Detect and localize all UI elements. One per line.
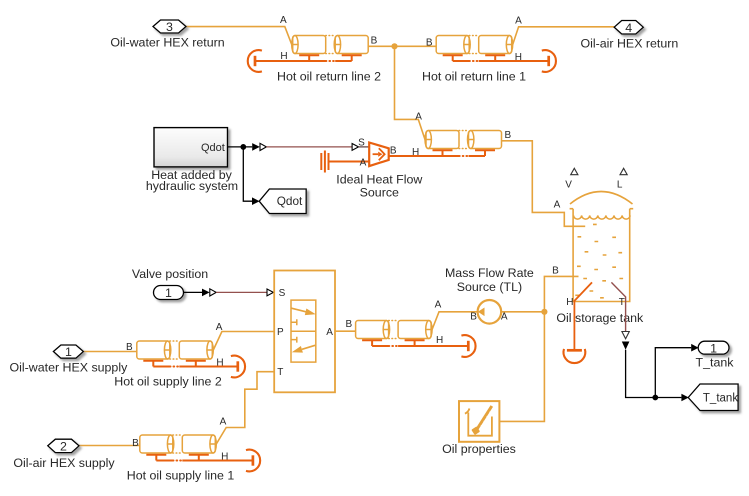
svg-text:2: 2 (60, 440, 67, 454)
svg-text:Hot oil supply line 1: Hot oil supply line 1 (127, 469, 235, 483)
svg-text:A: A (326, 327, 333, 338)
wire port3 to return line 2 port A (186, 27, 292, 45)
svg-text:1: 1 (165, 286, 172, 300)
ground H-port terminator middle pipe (461, 335, 475, 357)
svg-text:H: H (412, 147, 419, 158)
wire valve A to middle pipe B (335, 330, 356, 332)
svg-text:Qdot: Qdot (201, 142, 225, 154)
wire thermal reference to heat source A (329, 161, 370, 163)
svg-text:A: A (501, 311, 508, 322)
ground H-port terminator return line 1 (542, 50, 556, 72)
converter PS to Simulink (622, 342, 630, 350)
node junction at flow source output (541, 309, 547, 315)
svg-text:A: A (280, 15, 287, 26)
subsystem Heat added by hydraulic system (146, 128, 238, 193)
svg-text:Oil storage tank: Oil storage tank (556, 311, 644, 325)
wire PS signal to valve S (216, 291, 267, 293)
wire supply line 1 A to valve T (216, 372, 274, 444)
node junction return lines (391, 43, 397, 49)
svg-text:H: H (216, 357, 223, 368)
ground H-port terminator return line 2 (248, 50, 262, 72)
svg-text:Oil-water HEX supply: Oil-water HEX supply (10, 360, 129, 374)
svg-text:B: B (552, 265, 559, 276)
node T signal junction (652, 395, 658, 401)
svg-text:V: V (565, 179, 572, 190)
svg-text:S: S (279, 288, 286, 299)
goto tag T_tank (688, 384, 738, 411)
wire junction up to tank port B (544, 276, 578, 311)
svg-text:4: 4 (625, 21, 632, 35)
ground H-port terminator supply line 1 (246, 450, 260, 472)
inport 1 Valve position (132, 267, 208, 300)
ground H-port terminator supply line 2 (231, 356, 245, 378)
wire flow source A to junction (501, 311, 544, 313)
svg-text:H: H (436, 335, 443, 346)
wire tank T PS output (611, 282, 625, 331)
svg-text:B: B (426, 38, 433, 49)
svg-text:A: A (220, 416, 227, 427)
wire return line 2 B to return line 1 B (368, 45, 436, 47)
port 3 Oil-water HEX return (110, 20, 224, 50)
svg-text:H: H (566, 297, 573, 308)
svg-text:H: H (280, 51, 287, 62)
pipe Hot oil return line 1 (422, 15, 556, 83)
svg-text:B: B (132, 438, 139, 449)
svg-text:hydraulic system: hydraulic system (146, 179, 238, 193)
svg-text:Oil-air HEX supply: Oil-air HEX supply (13, 456, 115, 470)
pipe Hot oil supply line 2 (114, 322, 245, 389)
wire PS signal to heat source S (266, 146, 352, 148)
svg-text:A: A (435, 300, 442, 311)
svg-text:A: A (515, 15, 522, 26)
outport 1 T_tank (696, 341, 735, 369)
block Oil properties (442, 401, 516, 456)
svg-text:B: B (126, 342, 133, 353)
port 2 Oil-air HEX supply (13, 439, 115, 470)
wire port1 to supply line 2 B (83, 351, 136, 353)
pipe Hot oil supply line 1 (127, 416, 260, 482)
wire tank H to cup terminator (574, 282, 592, 350)
port 1 Oil-water HEX supply (10, 345, 129, 374)
svg-text:A: A (415, 112, 422, 123)
pipe Hot oil return line 2 (248, 15, 381, 83)
svg-text:Mass Flow Rate: Mass Flow Rate (445, 266, 534, 280)
svg-text:Source (TL): Source (TL) (457, 280, 522, 294)
thermal reference for heat source A (321, 151, 328, 173)
node Qdot junction (240, 144, 246, 150)
svg-text:A: A (360, 157, 367, 168)
svg-text:Source: Source (360, 185, 399, 199)
svg-text:Hot oil return line 1: Hot oil return line 1 (422, 70, 526, 84)
svg-text:B: B (504, 130, 511, 141)
svg-text:1: 1 (710, 341, 717, 355)
svg-text:T_tank: T_tank (703, 392, 738, 404)
svg-text:B: B (390, 146, 397, 157)
svg-text:3: 3 (166, 20, 173, 34)
wire junction down to oil properties (499, 312, 544, 422)
wire middle pipe A to flow source B (432, 312, 478, 330)
goto tag Qdot (259, 189, 306, 214)
wire junction to outport (655, 348, 691, 398)
valve block (274, 271, 335, 393)
wire return line 1 A to port4 (513, 27, 615, 45)
svg-text:Hot oil supply line 2: Hot oil supply line 2 (114, 375, 222, 389)
svg-text:T: T (619, 297, 625, 308)
tank Oil storage tank (552, 179, 644, 325)
ground cup terminator tank H (564, 349, 586, 363)
wire tank feed pipe B to tank port A (502, 141, 586, 227)
svg-text:1: 1 (65, 345, 72, 359)
svg-text:H: H (221, 451, 228, 462)
pipe between valve and flow source (unnamed) (345, 300, 475, 357)
pipe tank feed (unnamed) (389, 112, 512, 158)
flow source Mass Flow Rate Source (TL) (445, 266, 534, 324)
svg-text:Oil properties: Oil properties (442, 442, 516, 456)
wire port2 to supply line 1 B (79, 445, 140, 447)
svg-text:B: B (470, 311, 477, 322)
svg-text:Oil-air HEX return: Oil-air HEX return (581, 37, 679, 51)
svg-text:Valve position: Valve position (132, 267, 208, 281)
op heat source U1 Ideal Heat Flow Source (336, 138, 422, 200)
wire Qdot output (228, 146, 253, 148)
svg-text:H: H (515, 52, 522, 63)
port V unconnected triangle (571, 168, 578, 174)
wire valve position to converter (183, 291, 202, 293)
port 4 Oil-air HEX return (581, 21, 679, 51)
svg-text:T: T (277, 367, 283, 378)
svg-text:T_tank: T_tank (696, 355, 735, 369)
wire Qdot branch to goto tag (243, 147, 252, 201)
svg-text:Oil-water HEX return: Oil-water HEX return (110, 36, 224, 50)
svg-text:B: B (345, 319, 352, 330)
wire junction down to tank feed pipe A (395, 46, 426, 139)
svg-text:S: S (358, 138, 365, 149)
wire supply line 2 A to valve P (213, 332, 274, 351)
svg-text:L: L (617, 179, 623, 190)
svg-text:P: P (277, 327, 284, 338)
wire junction to goto tag (655, 397, 681, 399)
wire T signal to junction (626, 350, 656, 398)
svg-text:Ideal Heat Flow: Ideal Heat Flow (336, 172, 422, 186)
port L unconnected triangle (620, 168, 627, 174)
svg-text:A: A (216, 322, 223, 333)
svg-text:Qdot: Qdot (277, 194, 303, 208)
svg-text:Hot oil return line 2: Hot oil return line 2 (277, 70, 381, 84)
svg-text:A: A (554, 200, 561, 211)
svg-text:B: B (371, 36, 378, 47)
